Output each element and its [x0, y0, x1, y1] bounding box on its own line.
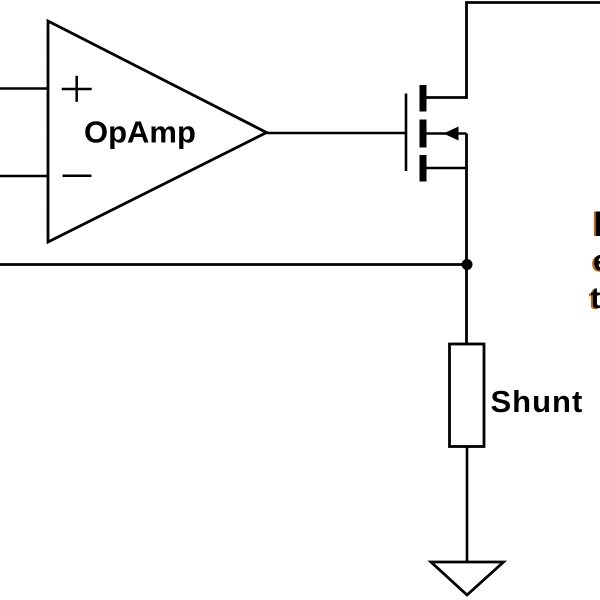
svg-text:Shunt: Shunt: [491, 384, 584, 419]
svg-text:M: M: [594, 205, 600, 244]
op-amp U1: [48, 21, 267, 242]
transistor Q1 channel bar top: [420, 85, 427, 112]
plus sign noninverting: [62, 76, 92, 102]
wire body connection: [427, 132, 467, 135]
wire shunt to ground: [466, 447, 469, 563]
transistor Q1 channel bar bottom: [420, 155, 427, 182]
wire drain connection: [427, 3, 600, 98]
wire op-amp output to gate: [267, 132, 407, 135]
minus sign inverting: [63, 175, 92, 178]
node junction dot: [462, 259, 473, 270]
wire noninverting input: [0, 87, 48, 90]
wire source connection: [427, 167, 467, 170]
resistor Shunt: [450, 344, 485, 447]
wire sense line left: [0, 263, 467, 266]
ground: [431, 562, 504, 595]
svg-text:OpAmp: OpAmp: [84, 115, 196, 150]
svg-text:t: t: [591, 282, 600, 315]
wire source down to shunt: [465, 134, 468, 345]
svg-text:e: e: [593, 245, 600, 278]
wire inverting input: [0, 175, 48, 178]
transistor Q1 MOSFET gate bar: [405, 94, 408, 172]
transistor Q1 channel bar middle: [420, 120, 427, 148]
arrow body N-channel: [444, 127, 459, 141]
